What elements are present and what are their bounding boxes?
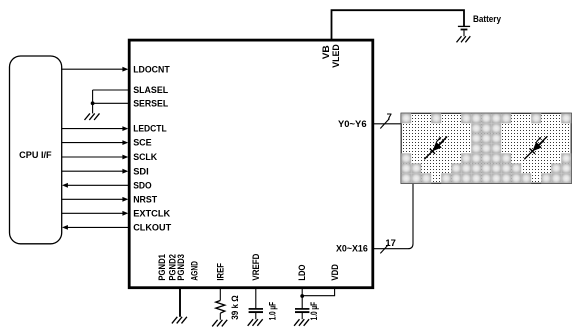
resistor R1 39k — [216, 301, 225, 314]
ground for C2 — [294, 319, 309, 326]
ground for R1 — [212, 320, 227, 327]
op IC U1 LED driver body — [129, 40, 373, 288]
svg-text:1.0 µF: 1.0 µF — [309, 302, 319, 321]
wire PGND/AGND to ground — [179, 288, 181, 317]
LED matrix panel — [401, 113, 571, 183]
bus slash Y — [380, 119, 389, 128]
wire C2 to ground — [301, 313, 303, 319]
svg-text:IREF: IREF — [216, 263, 226, 281]
ground for C1 — [248, 319, 263, 326]
wire bus Y0~Y6 — [373, 123, 401, 125]
capacitor C1 1.0uF — [249, 309, 263, 312]
battery BT1 — [458, 26, 470, 36]
wire SERSEL — [93, 102, 130, 104]
svg-text:CPU I/F: CPU I/F — [19, 150, 52, 161]
wire SCLK — [62, 155, 129, 160]
wire LEDCTL — [62, 126, 129, 131]
svg-text:VREFD: VREFD — [251, 253, 261, 280]
wire CLKOUT — [62, 225, 129, 230]
ground for PGND/AGND — [172, 317, 187, 324]
wire SLASEL-SERSEL tie — [92, 90, 94, 113]
svg-text:SLASEL: SLASEL — [133, 85, 168, 96]
wire NRST — [62, 197, 129, 202]
svg-text:LEDCTL: LEDCTL — [133, 124, 167, 135]
junction LDO/VDD — [300, 294, 304, 298]
svg-text:X0~X16: X0~X16 — [336, 244, 368, 255]
wire SDO — [62, 183, 129, 188]
svg-text:1.0 µF: 1.0 µF — [267, 302, 277, 321]
svg-text:AGND: AGND — [189, 261, 199, 281]
svg-text:SDO: SDO — [133, 180, 152, 191]
svg-text:PGND3: PGND3 — [176, 254, 186, 281]
wire IREF — [219, 288, 221, 301]
junction SLASEL/SERSEL — [91, 101, 95, 105]
wire C1 to ground — [255, 313, 257, 319]
wire SCE — [62, 140, 129, 145]
svg-text:SCE: SCE — [133, 138, 152, 149]
LED D1 — [424, 137, 447, 160]
svg-text:EXTCLK: EXTCLK — [133, 208, 170, 219]
svg-text:CLKOUT: CLKOUT — [133, 223, 171, 234]
bus slash X — [380, 244, 389, 253]
svg-text:39 k Ω: 39 k Ω — [230, 295, 240, 320]
svg-text:SCLK: SCLK — [133, 152, 157, 163]
svg-text:LDO: LDO — [297, 265, 307, 281]
wire VDD to LDO — [302, 288, 334, 296]
svg-text:SDI: SDI — [133, 166, 149, 177]
svg-text:SERSEL: SERSEL — [133, 98, 168, 109]
svg-text:VDD: VDD — [330, 264, 340, 281]
wire LDO — [301, 288, 303, 309]
capacitor C2 1.0uF — [295, 309, 309, 312]
wire VB/VLED to battery — [332, 10, 465, 40]
wire SDI — [62, 169, 129, 174]
svg-text:PGND1: PGND1 — [157, 254, 167, 281]
svg-text:LDOCNT: LDOCNT — [133, 64, 170, 75]
wire VREFD — [255, 288, 257, 309]
wire SLASEL — [93, 89, 130, 91]
svg-text:VLED: VLED — [331, 44, 342, 68]
wire R1 to ground — [219, 313, 221, 320]
ground for battery — [457, 36, 471, 42]
svg-text:7: 7 — [387, 112, 392, 123]
CPU I/F block — [10, 56, 62, 244]
svg-text:Battery: Battery — [473, 14, 502, 25]
wire bus X0~X16 — [373, 183, 413, 248]
ground for SLASEL/SERSEL — [85, 113, 100, 120]
wire LDOCNT — [62, 67, 129, 72]
svg-text:NRST: NRST — [133, 194, 157, 205]
svg-text:Y0~Y6: Y0~Y6 — [338, 119, 367, 130]
LED D2 — [524, 137, 547, 160]
svg-text:17: 17 — [385, 238, 396, 249]
wire EXTCLK — [62, 211, 129, 216]
